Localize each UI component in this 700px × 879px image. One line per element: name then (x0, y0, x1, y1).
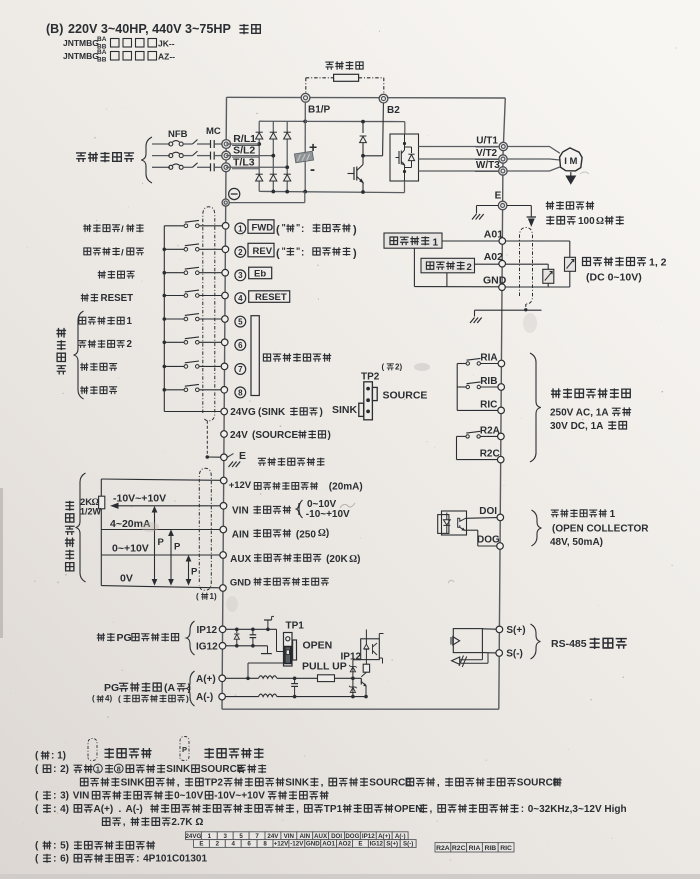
svg-text:IP12: IP12 (341, 652, 362, 663)
svg-text:30V DC, 1A: 30V DC, 1A (550, 421, 603, 432)
ground symbol hatch below GND (470, 318, 475, 324)
svg-text:S(-): S(-) (506, 649, 523, 660)
svg-text:2: 2 (216, 841, 220, 848)
svg-text:250V AC, 1A: 250V AC, 1A (550, 408, 609, 419)
wire right rail of drive (499, 98, 506, 709)
diode rectifier top 2 (270, 132, 277, 139)
pin number 8 (235, 387, 246, 398)
wire AUX 0~+10V (101, 554, 220, 556)
arrow level P1 (154, 508, 156, 585)
svg-text:(: ( (92, 694, 95, 703)
terminal 4 (222, 292, 229, 299)
optocoupler DO1 open collector (442, 511, 467, 535)
svg-text:RIC: RIC (500, 845, 512, 852)
svg-text:VIN: VIN (284, 833, 295, 840)
pin number 2 (235, 247, 246, 258)
junction brake branch (361, 120, 365, 124)
relay contact R2A (457, 435, 467, 437)
svg-text:IG12: IG12 (370, 841, 384, 848)
svg-text:AO1: AO1 (322, 841, 335, 848)
svg-text:(DC 0~10V): (DC 0~10V) (586, 272, 642, 284)
wire GND row to meters (505, 286, 570, 288)
svg-text:Eb: Eb (254, 268, 266, 279)
label speed setting power supply (254, 483, 261, 490)
svg-text:TP1: TP1 (286, 621, 305, 632)
wire input phase T/L3 (152, 166, 170, 168)
contactor MC pole 1 (193, 140, 198, 145)
svg-text:S/L2: S/L2 (233, 145, 255, 157)
svg-text:(: ( (196, 592, 199, 601)
svg-text:I M: I M (564, 156, 577, 167)
breaker NFB pole 1 (169, 142, 173, 146)
terminal 6 (221, 339, 228, 346)
svg-text:4: 4 (231, 841, 235, 848)
svg-text:): ) (186, 694, 189, 704)
svg-text:): ) (320, 407, 323, 418)
wire S+ from box (482, 628, 496, 630)
breaker NFB pole 2 (169, 154, 173, 158)
terminal DC minus (222, 199, 229, 206)
svg-text:RESET: RESET (101, 293, 134, 304)
wire E left branch (477, 205, 499, 207)
wire output W/T3 (419, 170, 499, 172)
diode rectifier top 1 (256, 132, 263, 139)
svg-text:,: , (430, 804, 433, 815)
transistor PG NPN (360, 678, 362, 684)
wire top DC bus B1/P-B2 (227, 96, 506, 99)
box RESET (249, 291, 290, 303)
svg-text:0~10V: 0~10V (174, 791, 204, 802)
contactor MC pole 3 (193, 163, 198, 168)
receiver return wires (481, 653, 483, 660)
svg-text:A(+): A(+) (196, 674, 216, 685)
svg-text:(: ( (382, 363, 385, 372)
diode rectifier bottom 3 (284, 174, 291, 181)
terminal 3 (222, 269, 229, 276)
label factory setting (vertical) (56, 328, 66, 338)
svg-text:1): 1) (210, 592, 217, 601)
brace DO outputs (532, 510, 542, 546)
terminal E ground (498, 201, 507, 210)
svg-text:S(+): S(+) (506, 625, 525, 636)
svg-text:24V: 24V (230, 430, 248, 441)
svg-text:A(-): A(-) (395, 833, 406, 840)
wire opto to DOG (464, 529, 478, 531)
svg-text:P: P (158, 537, 165, 548)
wire opto to DO1 (466, 517, 498, 520)
label fault RESET (81, 294, 89, 302)
wire IP12 (226, 628, 277, 630)
svg-text:Ω: Ω (596, 216, 604, 227)
svg-text:AZ--: AZ-- (158, 52, 175, 62)
terminal W/T3 (499, 167, 507, 175)
svg-text:AIN: AIN (232, 530, 249, 541)
svg-text:/: / (121, 224, 124, 235)
svg-text:3): 3) (60, 791, 69, 802)
label multi-function contact output (551, 388, 561, 398)
pin number 3 (235, 270, 246, 281)
svg-text:(B): (B) (46, 22, 63, 36)
terminal S+ (496, 626, 503, 633)
wire E right branch (507, 205, 531, 207)
svg-text:GND: GND (306, 841, 320, 848)
buffer receiver arrow (452, 657, 460, 664)
resistor pull-up (318, 675, 335, 682)
svg-text:SINK: SINK (121, 777, 146, 788)
svg-text:SINK: SINK (332, 404, 358, 416)
svg-text:6): 6) (60, 854, 69, 865)
svg-text:AIN: AIN (299, 833, 310, 840)
label multi-step speed 1 (79, 317, 86, 324)
svg-text:A(-): A(-) (126, 804, 143, 815)
box Eb (249, 267, 272, 279)
terminal IG12 (219, 643, 226, 650)
wire R/L1 to leg1 (226, 143, 259, 145)
svg-text:PG: PG (104, 682, 119, 694)
capacitor PG supply (252, 629, 254, 635)
svg-text:+: + (309, 139, 317, 155)
svg-text:AUX: AUX (314, 833, 328, 840)
svg-text:AUX: AUX (230, 554, 251, 565)
label external interrupt (80, 386, 88, 394)
box FWD (248, 220, 274, 234)
terminal E shield (221, 454, 228, 461)
wire DC minus feeder (229, 202, 304, 204)
wire box1 to GND row (413, 248, 415, 286)
svg-text:OPEN: OPEN (394, 804, 422, 815)
svg-text:(OPEN COLLECTOR: (OPEN COLLECTOR (552, 524, 649, 535)
svg-text:RIC: RIC (480, 399, 497, 410)
wire + bus to module (305, 120, 405, 122)
svg-text:(20K: (20K (326, 554, 348, 565)
label reverse run/stop (84, 248, 91, 255)
svg-text:48V, 50mA): 48V, 50mA) (550, 537, 603, 548)
label external fault (98, 271, 106, 279)
pin number 4 (235, 293, 246, 304)
svg-text::: : (301, 224, 304, 235)
svg-text:TP1: TP1 (324, 804, 343, 815)
shield oval analog outputs (dash-dot) (520, 228, 533, 305)
meter analog output 1 (565, 257, 576, 271)
switch digital input 2 (164, 248, 184, 250)
svg-text:100: 100 (578, 216, 595, 227)
svg-text:R2A: R2A (436, 845, 450, 852)
module inverter IGBT box (390, 134, 419, 181)
svg-text:A01: A01 (484, 229, 503, 241)
svg-text:,: , (123, 817, 126, 828)
wire bridge - bus (bottom) (259, 191, 404, 192)
svg-text:P: P (182, 745, 187, 754)
svg-text:T/L3: T/L3 (233, 156, 255, 168)
label analog signal output 1,2 (583, 258, 591, 266)
svg-text:RIB: RIB (480, 376, 497, 387)
brace RS-485 (531, 624, 541, 659)
svg-text:0V: 0V (120, 573, 133, 585)
rs485 transceiver box (453, 629, 482, 653)
svg-text:E: E (358, 841, 362, 848)
svg-text:B1/P: B1/P (308, 105, 331, 116)
svg-text:(: ( (276, 248, 280, 260)
wire B1/P down to capacitor (304, 102, 306, 152)
svg-text::: : (53, 854, 56, 865)
diode rectifier top 3 (284, 132, 291, 139)
diode PG supply (236, 629, 238, 633)
terminal R2A (498, 433, 505, 440)
svg-text:5: 5 (239, 833, 243, 840)
wire A- with filter (225, 696, 258, 698)
pin number 5 (235, 316, 246, 327)
wire S/L2 to leg2 (226, 155, 273, 157)
svg-text:24VG: 24VG (230, 407, 256, 418)
svg-text:TP2: TP2 (205, 777, 224, 788)
svg-text:1: 1 (127, 316, 133, 327)
svg-text:P: P (174, 542, 181, 553)
wire S- from box (482, 652, 496, 654)
svg-text:(20mA): (20mA) (329, 482, 363, 493)
ground motor arrow (570, 172, 572, 176)
terminal +12V (220, 477, 227, 484)
switch digital input 1 (164, 225, 184, 227)
terminal R2C (497, 456, 504, 463)
terminal 24VG (221, 408, 228, 415)
svg-text:24VG: 24VG (185, 833, 201, 840)
wire output V/T2 (419, 158, 500, 160)
svg-text:): ) (328, 430, 331, 441)
svg-text:(A: (A (164, 682, 175, 694)
wire output U/T1 (419, 146, 500, 148)
box REV (248, 243, 274, 256)
svg-text:,: , (296, 804, 299, 815)
svg-text:(250: (250 (296, 530, 316, 541)
svg-text:,: , (321, 777, 324, 788)
terminal R1A (498, 360, 505, 367)
svg-text:): ) (357, 554, 360, 565)
note VIN ranges (296, 500, 302, 518)
svg-text:DOG: DOG (477, 535, 500, 546)
resistor brake (dash-dot leads) (334, 74, 359, 81)
svg-text:(SOURCE: (SOURCE (252, 430, 298, 441)
svg-text:6: 6 (238, 341, 243, 350)
wire shield dot to E terminal (207, 456, 220, 458)
diode brake freewheel (362, 122, 364, 133)
svg-text:FWD: FWD (252, 223, 274, 234)
switch digital input 7 (164, 365, 184, 367)
wire bridge + bus (top) (259, 120, 305, 122)
svg-text:A02: A02 (484, 251, 503, 263)
terminal IP12 (219, 626, 226, 633)
relay contact R1B (457, 386, 466, 388)
bridge leg 3 wire (286, 121, 288, 191)
svg-text::: : (301, 248, 304, 259)
switch digital input 5 (164, 318, 184, 320)
wire B2 to brake node (382, 103, 385, 156)
terminal 2 (222, 246, 229, 253)
wire input phase R/L1 (152, 143, 170, 145)
svg-text:SINK: SINK (285, 777, 310, 788)
svg-text:DOI: DOI (479, 506, 497, 517)
svg-text:,: , (177, 777, 180, 788)
svg-text:GND: GND (230, 578, 251, 589)
svg-text:(: ( (118, 694, 121, 704)
svg-text:VIN: VIN (232, 505, 249, 516)
pin number 7 (235, 364, 246, 375)
svg-text::: : (136, 854, 139, 865)
label multi-function output 1 (551, 510, 559, 517)
wire bottom edge of drive (222, 708, 499, 710)
svg-text:1/2W: 1/2W (80, 507, 102, 517)
diode inverter freewheel (405, 146, 412, 148)
terminal 7 (221, 363, 228, 370)
terminal 5 (222, 316, 229, 323)
svg-text:-12V: -12V (290, 841, 304, 848)
terminal R1B (498, 384, 505, 391)
terminal strip table row2 (194, 840, 210, 848)
svg-text:JNTMBG: JNTMBG (63, 51, 99, 61)
svg-text:": " (296, 246, 300, 256)
svg-text:R2A: R2A (480, 425, 500, 436)
svg-text:(SINK: (SINK (258, 407, 286, 418)
svg-text:AO2: AO2 (338, 841, 351, 848)
terminal S/L2 (222, 151, 231, 160)
svg-text:RIA: RIA (480, 353, 497, 364)
svg-text::: : (53, 841, 56, 852)
label shielded wire connect terminal (258, 458, 266, 465)
terminal strip table row1 (186, 832, 202, 840)
capacitor DC bus electrolytic (294, 151, 313, 163)
svg-text:E: E (199, 841, 203, 848)
wire input phase S/L2 (152, 155, 170, 157)
svg-text:RIA: RIA (469, 845, 481, 852)
svg-text::: : (521, 804, 524, 815)
svg-text:BA: BA (97, 49, 107, 56)
svg-text:A(+): A(+) (94, 804, 114, 815)
svg-text:A(+): A(+) (378, 833, 390, 840)
svg-text:RESET: RESET (255, 292, 287, 303)
svg-text:8: 8 (238, 388, 243, 397)
breaker NFB pole 3 (169, 165, 173, 169)
svg-text:4): 4) (105, 694, 112, 703)
svg-text:NFB: NFB (168, 129, 188, 140)
wire GND row (414, 286, 498, 288)
svg-text:6: 6 (247, 841, 251, 848)
wire TP1 to A+ line (248, 662, 284, 664)
diode rectifier bottom 1 (256, 174, 263, 181)
svg-text:-10V~+10V: -10V~+10V (113, 493, 166, 505)
svg-text:3: 3 (223, 833, 227, 840)
terminal AIN (220, 526, 227, 533)
terminal A+ (219, 675, 226, 682)
svg-text:": " (282, 246, 286, 256)
svg-text:(: ( (276, 224, 280, 236)
jumper cap SOURCE position (372, 387, 377, 400)
arrow level P3 (188, 557, 190, 585)
wire IG12 common (226, 645, 268, 647)
svg-text:": " (296, 223, 300, 233)
svg-text:W/T3: W/T3 (476, 160, 500, 171)
wire shield drain to E (206, 421, 208, 457)
terminal V/T2 (499, 155, 507, 163)
label jog command (80, 363, 88, 371)
svg-text:IG12: IG12 (196, 641, 218, 652)
svg-text:GND: GND (483, 275, 507, 287)
svg-text:: 1): : 1) (51, 751, 66, 762)
svg-text:1: 1 (610, 509, 616, 520)
ground symbol plate with arrow (527, 216, 536, 218)
ground symbol hatch at E (229, 462, 234, 468)
arrow level P2 (170, 531, 172, 584)
box analog output 1 label (384, 233, 442, 248)
svg-text:Ω: Ω (195, 817, 203, 828)
svg-text:): ) (353, 248, 357, 260)
brace relay outputs (530, 353, 541, 462)
switch digital input 3 (164, 272, 184, 274)
wire AO1 to meter1 (506, 240, 570, 242)
wire AIN 4-20mA (101, 529, 220, 531)
switch bus vertical (left) (163, 226, 165, 412)
svg-text::: : (53, 764, 56, 775)
svg-text:1: 1 (208, 833, 212, 840)
svg-text:DOG: DOG (345, 833, 359, 840)
svg-text:2: 2 (467, 262, 472, 273)
svg-text:S(-): S(-) (403, 841, 413, 848)
svg-text:IP12: IP12 (362, 833, 375, 840)
svg-text:-: - (310, 161, 315, 178)
svg-text:7: 7 (255, 833, 259, 840)
capacitor A+/A- (294, 678, 296, 683)
switch digital input 6 (164, 341, 184, 343)
svg-text:1: 1 (238, 224, 243, 233)
svg-text:2.7K: 2.7K (171, 817, 193, 828)
shield oval analog inputs (199, 468, 211, 590)
terminal 24V (221, 431, 228, 438)
svg-text:TP2: TP2 (361, 372, 380, 383)
svg-text:RS-485: RS-485 (551, 638, 587, 650)
svg-text:S(+): S(+) (386, 841, 398, 848)
resistor collector (363, 664, 369, 672)
contactor MC pole 2 (193, 151, 198, 156)
bridge leg 2 wire (272, 121, 274, 191)
bridge leg 1 wire (258, 121, 260, 191)
zener diode upper (352, 660, 354, 679)
svg-text::: : (53, 804, 56, 815)
minus circle symbol (229, 188, 240, 199)
wire left rail of drive (222, 97, 227, 709)
ground symbol hatch left (472, 214, 477, 220)
terminal S- (496, 650, 503, 657)
bracket multi-function contact inputs (251, 316, 259, 396)
svg-text:2): 2) (60, 764, 69, 775)
svg-text:+12V: +12V (229, 480, 252, 491)
terminal R/L1 (222, 140, 231, 149)
svg-text:V/T2: V/T2 (476, 148, 498, 159)
wire A+ with filter (226, 677, 259, 679)
junction top bus (303, 120, 307, 124)
svg-text:2: 2 (238, 248, 243, 257)
motor IM (560, 148, 583, 171)
slash marks twisted pair (459, 656, 467, 668)
pin number 6 (235, 340, 246, 351)
junction brake diode-IGBT (361, 154, 365, 158)
svg-text:): ) (326, 528, 329, 539)
svg-text:.: . (119, 804, 122, 815)
brake resistor label (325, 62, 333, 70)
terminal GND analog in (220, 585, 227, 592)
wire bus to 24VG (164, 411, 221, 413)
terminal B1/P (301, 93, 310, 102)
svg-text:2: 2 (127, 339, 133, 350)
svg-text:E: E (495, 191, 502, 202)
junction bottom bus legs (271, 190, 275, 194)
